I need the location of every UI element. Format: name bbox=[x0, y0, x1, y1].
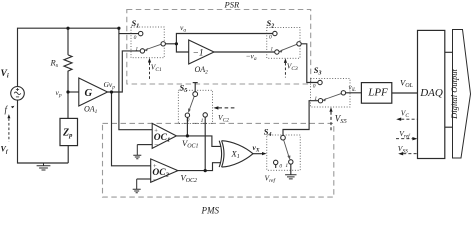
svg-text:1: 1 bbox=[201, 118, 204, 124]
svg-text:1: 1 bbox=[314, 96, 317, 102]
svg-text:G: G bbox=[85, 88, 93, 99]
svg-text:PMS: PMS bbox=[201, 205, 220, 214]
svg-text:0: 0 bbox=[313, 83, 316, 89]
svg-text:−1: −1 bbox=[193, 49, 204, 59]
svg-text:−: − bbox=[153, 176, 157, 184]
svg-text:0: 0 bbox=[279, 163, 282, 169]
svg-text:0: 0 bbox=[269, 35, 272, 41]
svg-text:LPF: LPF bbox=[367, 87, 388, 99]
svg-text:1: 1 bbox=[135, 46, 138, 52]
svg-text:1: 1 bbox=[285, 163, 288, 169]
svg-text:1: 1 bbox=[270, 47, 273, 53]
svg-text:−: − bbox=[154, 141, 158, 149]
svg-text:0: 0 bbox=[187, 118, 190, 124]
svg-text:PSR: PSR bbox=[224, 0, 240, 10]
svg-text:DAQ: DAQ bbox=[419, 87, 443, 99]
svg-text:Digital Output: Digital Output bbox=[449, 68, 459, 119]
svg-text:+: + bbox=[154, 127, 158, 134]
svg-text:+: + bbox=[153, 163, 157, 170]
svg-text:0: 0 bbox=[134, 35, 137, 41]
